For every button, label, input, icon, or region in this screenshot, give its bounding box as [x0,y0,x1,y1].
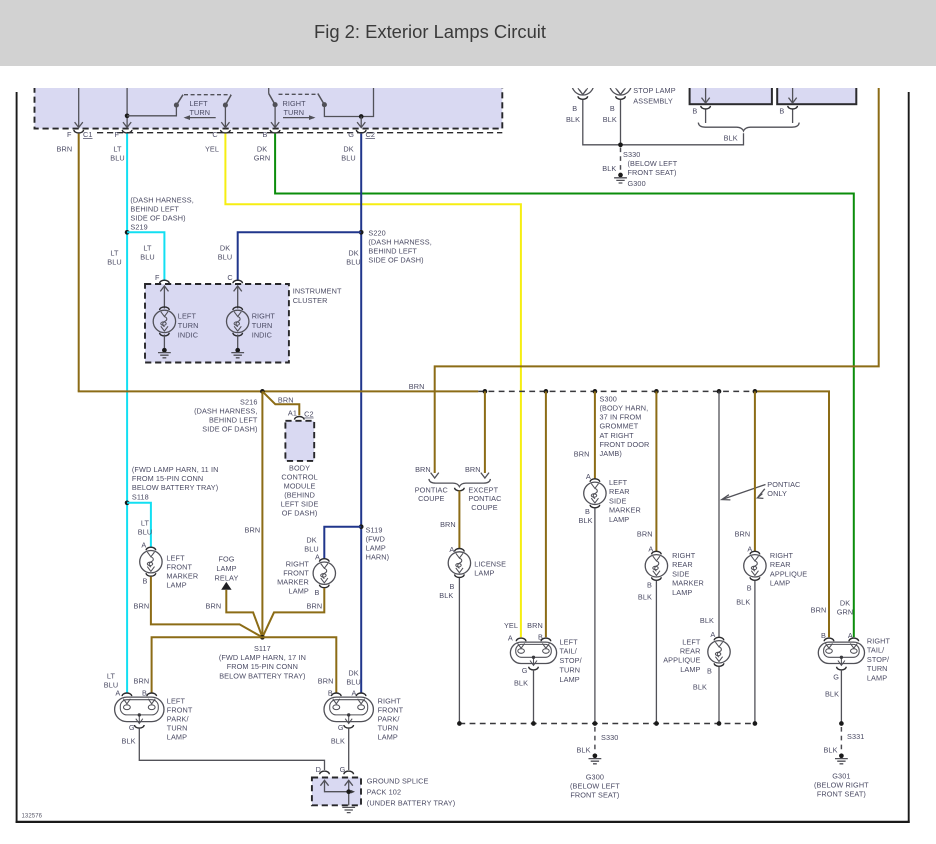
label GROUND SPLICE PACK 102 [367,776,456,807]
svg-text:S300(BODY HARN,37 IN FROMGROMM: S300(BODY HARN,37 IN FROMGROMMETAT RIGHT… [600,394,650,458]
svg-text:BLK: BLK [579,516,593,525]
svg-text:B: B [572,104,577,113]
svg-text:A: A [710,630,715,639]
node license lamp ground on bus [457,721,462,726]
splice S117 junction [260,635,265,640]
wire BRN main drop S216 to S117 [261,391,263,637]
svg-text:BLK: BLK [724,133,738,142]
svg-text:LEFT: LEFT [190,99,209,108]
svg-text:G300(BELOW LEFTFRONT SEAT): G300(BELOW LEFTFRONT SEAT) [570,772,620,799]
label BLK (left applique ground) [693,682,707,691]
wire BLK brace to S330 [622,133,744,145]
ground symbol right indicator [231,353,244,358]
lamp RIGHT REAR SIDE MARKER [645,551,667,580]
splice S330 (upper) [618,142,623,147]
wire BLK right front park G to splice pack G [348,728,350,770]
header band [0,0,936,66]
label BLK (left front park ground) [122,736,136,745]
pin label A (right front marker) [315,553,320,562]
pin label B (right front park) [328,689,333,698]
instrument cluster box [145,284,289,363]
dashed BLK wire to G300 (lower) [594,727,596,754]
svg-text:BRN: BRN [57,144,73,153]
svg-text:B: B [707,666,712,675]
note text S118 fwd lamp harness [132,465,219,501]
pin label A (left front marker) [141,541,146,550]
wire colour label DK BLU (pin G) [341,144,356,162]
svg-text:RIGHTTAIL/STOP/TURNLAMP: RIGHTTAIL/STOP/TURNLAMP [867,637,891,683]
wire BRN from S216 to body control module A1 [262,391,299,415]
svg-text:G301(BELOW RIGHTFRONT SEAT): G301(BELOW RIGHTFRONT SEAT) [814,771,869,798]
label BRN (right tail B) [811,606,827,615]
wire BLK license lamp to ground bus [458,578,460,724]
svg-text:B: B [647,580,652,589]
pin label A (right tail) [848,631,853,640]
svg-text:S330: S330 [601,733,618,742]
arrow inside rear lamp box left [702,86,710,103]
svg-text:BRN: BRN [415,465,431,474]
svg-text:BLK: BLK [693,682,707,691]
note text S117 fwd lamp harness [219,644,306,681]
label BRN (right marker wire) [307,602,323,611]
node right rear marker ground on bus [654,721,659,726]
label BRN (right front park B) [318,677,334,686]
label BLK (right rear marker) [638,592,652,601]
label LEFT TAIL/STOP/TURN LAMP [560,637,583,684]
svg-text:LEFTFRONTMARKERLAMP: LEFTFRONTMARKERLAMP [166,553,198,589]
svg-text:S331: S331 [847,732,864,741]
lamp RIGHT FRONT PARK/TURN [324,693,373,728]
svg-text:B: B [692,107,697,116]
wire BLK left tail G to ground bus [533,670,535,724]
connector label C2 [366,130,376,139]
wire colour label LT BLU (left front park) [104,672,119,690]
pin label A (left rear marker) [586,472,591,481]
svg-text:DKBLU: DKBLU [346,249,361,267]
svg-text:BRN: BRN [465,465,481,474]
arrow terminals of both drops [431,473,489,478]
wire BLK stop lamp 1 to S330 [583,100,620,145]
wire colour label LT BLU (pin F) [110,144,125,162]
svg-text:(FWD LAMP HARN, 11 INFROM 15-P: (FWD LAMP HARN, 11 INFROM 15-PIN CONNBEL… [132,465,219,501]
lamp LEFT REAR APPLIQUE [708,637,730,666]
svg-text:LEFTREARAPPLIQUELAMP: LEFTREARAPPLIQUELAMP [663,637,701,674]
svg-text:G300: G300 [628,179,646,188]
note text S300 body harness [600,394,650,458]
svg-text:B: B [585,507,590,516]
ground bus dashed (rear harness) [459,723,755,725]
svg-text:B: B [747,584,752,593]
splice pack internal bus [320,780,355,805]
svg-text:BRN: BRN [134,677,150,686]
svg-text:BRN: BRN [440,520,456,529]
label RIGHT FRONT PARK/TURN LAMP [378,697,404,742]
pin label G (right tail) [833,673,839,682]
pin label B (right front marker) [315,588,320,597]
wire stub box right B [792,110,794,124]
svg-text:G: G [833,673,839,682]
lamp stop right (cut at top) [610,73,632,99]
svg-text:TURN: TURN [190,108,211,117]
brace joining rear lamp grounds [698,123,799,131]
connector label C1 [83,130,93,139]
frame bottom border [16,821,910,823]
wire DK GRN from pin B to right tail lamp [275,134,854,638]
wire BRN upper feed from top right to Pontiac drop [435,86,879,473]
svg-text:G: G [348,130,354,139]
label BLK (stop lamp 1) [566,115,580,124]
svg-text:DKBLU: DKBLU [341,144,356,162]
lamp RIGHT TURN INDIC [227,307,249,336]
pin label F (LT BLU) [114,130,119,139]
svg-text:B: B [779,107,784,116]
label LICENSE LAMP [474,560,506,578]
pin label A (left applique) [710,630,715,639]
lamp LEFT FRONT MARKER [140,547,162,576]
right turn switch feed blade [269,86,277,107]
svg-text:LEFTTURNINDIC: LEFTTURNINDIC [178,312,199,340]
right turn switch linkage (dashed) [279,93,318,95]
svg-text:BLK: BLK [638,592,652,601]
svg-text:BLK: BLK [602,164,616,173]
label BLK (right applique ground) [736,597,750,606]
svg-text:A: A [449,545,454,554]
wire colour label DK GRN (pin B) [254,144,271,162]
connector cups at switch box pins [74,130,366,133]
pin label B (box right) [779,107,784,116]
wire colour label LT BLU (marker branch) [138,519,153,537]
wire colour label DK BLU (S119 branch) [304,536,319,554]
pin label A (right rear marker) [648,544,653,553]
svg-text:A1: A1 [288,408,297,417]
svg-text:B: B [328,689,333,698]
label RIGHT TURN with arrow [283,99,316,120]
connector line C1/C2 below switch box [97,132,502,134]
splice S119 [359,524,364,529]
svg-text:PONTIACONLY: PONTIACONLY [767,480,800,498]
main BRN bus horizontal (solid left part) [78,390,479,392]
wire BRN bus to right rear applique A [753,389,758,551]
label RIGHT TAIL/STOP/TURN LAMP [867,637,891,683]
svg-text:G: G [522,666,528,675]
pin label B (box left) [692,107,697,116]
svg-text:RIGHTFRONTMARKERLAMP: RIGHTFRONTMARKERLAMP [277,559,309,595]
node right applique ground on bus [753,721,758,726]
lamp RIGHT FRONT MARKER [313,559,335,588]
pin label F (C1) [67,130,72,139]
connector label C2 (BCM) [304,410,314,419]
label BLK (G301) [823,746,837,755]
svg-text:A: A [141,541,146,550]
label BRN on BCM wire [278,396,294,405]
svg-text:YEL: YEL [504,621,518,630]
right turn switch output blade [318,94,361,117]
label BLK (left applique feed) [700,616,714,625]
svg-text:BLK: BLK [825,690,839,699]
svg-text:BRN: BRN [278,396,294,405]
wire LT BLU branch S118 to left front marker lamp [127,503,151,547]
svg-text:BLK: BLK [331,736,345,745]
connector cup at box left pin [701,106,711,109]
svg-text:LEFTTAIL/STOP/TURNLAMP: LEFTTAIL/STOP/TURNLAMP [560,637,583,684]
cluster pin C cap and label [227,273,242,283]
ground symbol below splice pack [342,807,355,812]
svg-text:C2: C2 [366,130,376,139]
wire colour label DK BLU (right front park A) [346,668,361,686]
pin label B (left front park) [142,689,147,698]
wire colour label DK BLU left of main run [346,249,361,267]
pin label B (left applique) [707,666,712,675]
svg-text:C1: C1 [83,130,93,139]
wire DK BLU branch from S220 to cluster pin C [238,232,362,281]
label G300 (BELOW LEFT FRONT SEAT) [570,772,620,799]
svg-text:C: C [212,130,217,139]
label BRN (right rear marker) [637,529,653,538]
ground G301 [835,753,848,763]
label G300 (upper) [628,179,646,188]
svg-text:C2: C2 [304,410,314,419]
svg-text:(BELOW LEFTFRONT SEAT): (BELOW LEFTFRONT SEAT) [628,159,678,177]
wire BRN left front marker B to S117 [151,577,263,638]
wire colour label LT BLU left of main run [107,249,122,267]
splice S216 [260,389,265,394]
svg-text:BRN: BRN [245,525,261,534]
pin label A (left tail) [508,633,513,642]
label LEFT REAR SIDE MARKER LAMP [609,478,641,524]
pin label B (stop lamp 2) [610,104,615,113]
wire BRN fog lamp relay to S117 [226,590,262,638]
svg-text:B: B [143,577,148,586]
label BRN (right applique) [735,529,751,538]
label BLK (left tail ground) [514,679,528,688]
svg-text:G: G [338,723,344,732]
wire DK BLU pin G drop [357,117,365,128]
label BRN (left front park B) [134,677,150,686]
svg-text:A: A [508,633,513,642]
svg-text:BLK: BLK [823,746,837,755]
pin label C (YEL) [212,130,217,139]
svg-text:LTBLU: LTBLU [140,244,155,262]
svg-text:BLK: BLK [576,746,590,755]
svg-text:LEFTFRONTPARK/TURNLAMP: LEFTFRONTPARK/TURNLAMP [167,697,193,742]
wire colour label DK BLU on branch [218,244,233,262]
pin label B (left tail) [538,632,543,641]
label LEFT FRONT MARKER LAMP [166,553,198,589]
label BLK (right tail ground) [825,690,839,699]
wire LT BLU branch from S219 to cluster pin F [127,232,164,281]
svg-text:TURN: TURN [284,108,305,117]
svg-text:FOGLAMPRELAY: FOGLAMPRELAY [215,555,239,583]
svg-text:BRN: BRN [637,529,653,538]
svg-text:RIGHT: RIGHT [283,99,307,108]
label S330 (lower) [601,733,618,742]
wire DK BLU main run from pin G to right front park lamp [360,134,362,694]
svg-text:G: G [129,723,135,732]
left turn switch linkage (dashed) [184,94,231,96]
pin label A (right applique) [747,544,752,553]
svg-text:132576: 132576 [22,814,43,820]
label S331 [847,732,864,741]
splice S220 [359,230,364,235]
label LEFT TURN with arrow [184,99,216,120]
label RIGHT FRONT MARKER LAMP [277,559,309,595]
svg-text:A: A [352,689,357,698]
wire BRN S117 to left front park lamp B [152,637,263,693]
svg-text:RIGHTREARAPPLIQUELAMP: RIGHTREARAPPLIQUELAMP [770,551,807,588]
wire feed to C1 pin F inside switch box [75,86,83,128]
svg-text:DKGRN: DKGRN [837,599,854,617]
label BRN (fog relay wire) [206,602,222,611]
frame left border [16,92,18,823]
wire DK GRN pin B drop [271,105,279,128]
wire BLK bus to left rear applique A (pontiac only) [717,389,722,637]
label BRN (main drop) [245,525,261,534]
connector cup at merge [455,488,465,491]
svg-text:C: C [227,273,232,282]
pin label B (DK GRN) [263,130,268,139]
splice S219 [125,230,130,235]
note text S119 fwd lamp harn [366,525,390,561]
svg-text:B: B [142,689,147,698]
pin label G (left front park) [129,723,135,732]
ground G300 (lower) [589,753,602,763]
wire DK BLU branch S119 to right front marker [324,527,361,559]
wire BRN merge to license lamp [458,491,460,549]
pin label A1 [288,408,297,417]
label RIGHT REAR SIDE MARKER LAMP [672,551,704,597]
lamp RIGHT TAIL/STOP/TURN [818,638,864,670]
svg-text:BRN: BRN [134,602,150,611]
svg-text:BRN: BRN [318,677,334,686]
svg-text:BLK: BLK [439,591,453,600]
label BRN (license feed) [440,520,456,529]
node left applique ground on bus [717,721,722,726]
note (BELOW LEFT FRONT SEAT) upper [628,159,678,177]
svg-text:A: A [586,472,591,481]
svg-text:BRN: BRN [735,529,751,538]
body control module box [285,421,314,461]
node left tail ground on bus [531,721,536,726]
svg-text:DKBLU: DKBLU [304,536,319,554]
ground symbol left indicator [158,353,171,358]
note text S220 dash harness [368,228,431,264]
svg-text:B: B [263,130,268,139]
wire BRN bus to right rear side marker A [654,389,659,551]
lamp RIGHT REAR APPLIQUE [744,551,766,580]
splice S331 node [839,721,844,726]
label LEFT TURN INDIC [178,312,199,340]
ground splice pack 102 box [312,778,361,806]
svg-text:BRN: BRN [811,606,827,615]
svg-text:PONTIACCOUPE: PONTIACCOUPE [415,485,448,503]
svg-text:B: B [538,632,543,641]
pin label A (left front park) [115,689,120,698]
svg-text:F: F [155,273,160,282]
left turn indicator lamp branch inside cluster [160,286,168,309]
pin label G (left tail) [522,666,528,675]
label BRN on bus [409,382,425,391]
svg-text:DKGRN: DKGRN [254,144,271,162]
label S330 (upper) [623,150,640,159]
pin label G (right front park) [338,723,344,732]
svg-text:EXCEPTPONTIACCOUPE: EXCEPTPONTIACCOUPE [468,485,501,512]
label RIGHT TURN INDIC [252,312,276,340]
wire LT BLU main run from pin F to left front park lamp [126,134,128,694]
wire feed LT BLU pin F inside switch box with branch to left-turn switch [123,86,176,128]
svg-text:B: B [450,582,455,591]
label BLK (right front park ground) [331,736,345,745]
svg-text:F: F [114,130,119,139]
svg-text:S117(FWD LAMP HARN, 17 INFROM: S117(FWD LAMP HARN, 17 INFROM 15-PIN CON… [219,644,306,681]
connector cup at box right pin [788,106,798,109]
dashed BLK wire to G300 [620,148,622,173]
splice S118 [125,500,130,505]
lamp LEFT FRONT PARK/TURN [115,693,164,728]
svg-text:S220(DASH HARNESS,BEHIND LEFTS: S220(DASH HARNESS,BEHIND LEFTSIDE OF DAS… [368,228,431,264]
label EXCEPT PONTIAC COUPE [468,485,501,512]
wire stub box left B [705,110,707,124]
svg-text:B: B [315,588,320,597]
ground G300 (upper) [614,173,627,183]
label LEFT FRONT PARK/TURN LAMP [167,697,193,742]
label RIGHT REAR APPLIQUE LAMP [770,551,807,588]
label BLK (G300 upper) [602,164,616,173]
left turn switch blades [175,95,232,107]
splice S330 (lower) node [593,721,598,726]
cluster pin F cap and label [155,273,169,283]
svg-text:A: A [115,689,120,698]
lamp stop left (cut at top) [572,73,594,99]
wire BRN except-pontiac drop from bus [483,389,488,473]
pin label B (right applique) [747,584,752,593]
wire colour label LT BLU on branch [140,244,155,262]
label BLK (brace wire) [724,133,738,142]
wire BLK right rear marker to ground bus [655,581,657,724]
svg-text:(DASH HARNESS,BEHIND LEFTSIDE: (DASH HARNESS,BEHIND LEFTSIDE OF DASH)S2… [130,195,193,231]
label YEL (left tail A) [504,621,518,630]
lamp LEFT REAR SIDE MARKER [584,479,606,508]
pin label B (left front marker) [143,577,148,586]
svg-text:DKBLU: DKBLU [218,244,233,262]
pin label A (right front park) [352,689,357,698]
connector caps at splice pack [320,771,354,774]
wire BLK stop lamp 2 to S330 [620,100,622,145]
ground wire of left indicator [162,335,167,353]
svg-text:S216(DASH HARNESS,BEHIND LEFTS: S216(DASH HARNESS,BEHIND LEFTSIDE OF DAS… [194,397,258,433]
bus solid right part to right tail lamp drop [755,391,829,637]
label INSTRUMENT CLUSTER [293,287,342,306]
label BLK (left rear marker) [579,516,593,525]
label BRN (left marker to S117) [134,602,150,611]
label BRN (except pontiac drop) [465,465,481,474]
wire BLK left applique to ground bus [718,667,720,724]
svg-text:LICENSELAMP: LICENSELAMP [474,560,506,578]
wire BLK right tail G down [840,670,842,722]
wire BLK left front park G to splice pack D [139,728,324,770]
wire colour label DK GRN (right tail A) [837,599,854,617]
right turn indicator branch inside cluster [234,286,242,309]
svg-text:LEFTREARSIDEMARKERLAMP: LEFTREARSIDEMARKERLAMP [609,478,641,524]
svg-text:BRN: BRN [307,602,323,611]
label BLK (license) [439,591,453,600]
wire BLK right applique to ground bus [754,581,756,724]
svg-text:BRN: BRN [409,382,425,391]
svg-text:S119(FWDLAMPHARN): S119(FWDLAMPHARN) [366,525,390,561]
wire BLK left rear marker to ground bus [594,508,596,723]
pin label B (license) [450,582,455,591]
label BRN (left tail B) [527,621,543,630]
lamp LEFT TURN INDIC [153,307,175,336]
